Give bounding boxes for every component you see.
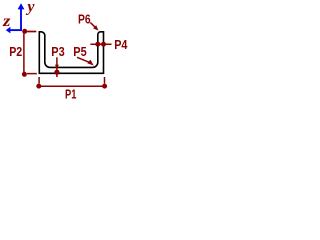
svg-text:P4: P4 [114,37,128,52]
svg-text:P3: P3 [51,44,64,59]
svg-text:P1: P1 [65,87,76,100]
svg-text:y: y [25,0,35,16]
svg-text:P2: P2 [9,44,22,59]
svg-text:P6: P6 [78,11,91,26]
svg-text:P5: P5 [73,44,86,59]
svg-text:z: z [2,13,11,30]
